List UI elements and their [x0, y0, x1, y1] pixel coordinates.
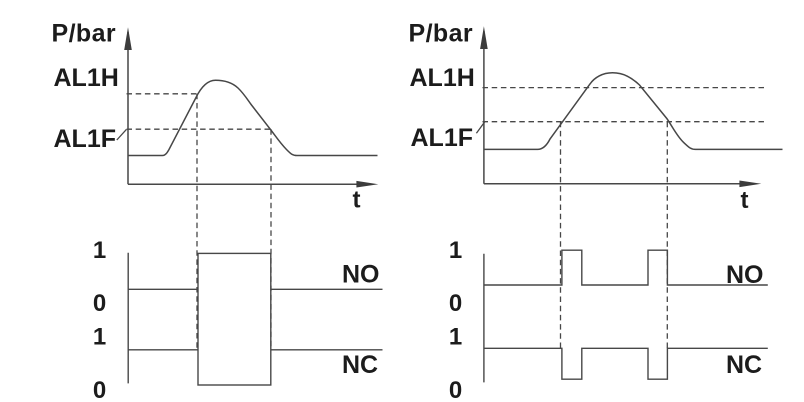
svg-text:NO: NO: [342, 261, 380, 289]
svg-text:P/bar: P/bar: [409, 20, 474, 48]
svg-text:NC: NC: [342, 351, 378, 379]
svg-text:NC: NC: [726, 351, 762, 379]
left horizontal t axis: [128, 183, 358, 185]
svg-text:1: 1: [449, 237, 462, 264]
right vertical P axis: [483, 31, 485, 184]
left pressure curve: [128, 80, 378, 155]
right horizontal t axis: [484, 183, 741, 185]
left switching pulse rectangle: [198, 253, 271, 385]
svg-text:1: 1: [449, 324, 462, 351]
right lower vertical axis: [483, 254, 485, 383]
right NC signal with two pulses: [484, 348, 768, 379]
svg-text:1: 1: [93, 237, 106, 264]
left NC signal line: [128, 349, 382, 351]
svg-text:NO: NO: [726, 261, 764, 289]
svg-text:0: 0: [93, 377, 106, 402]
left dashed marker line 2 (AL1F crossing): [270, 129, 272, 349]
svg-text:AL1H: AL1H: [54, 64, 119, 92]
left AL1H dashed level line: [127, 93, 199, 95]
right P axis arrowhead: [480, 26, 488, 49]
right t axis arrowhead: [739, 181, 761, 188]
right AL1F dashed level line: [483, 121, 766, 123]
left P axis arrowhead: [124, 27, 132, 50]
right pressure curve: [484, 73, 783, 150]
left t axis arrowhead: [356, 181, 378, 188]
svg-text:t: t: [741, 187, 749, 214]
left vertical P axis: [127, 32, 129, 184]
svg-text:t: t: [353, 187, 361, 214]
right dashed marker line 1 (AL1F up-crossing): [560, 122, 562, 349]
right dashed marker line 2 (AL1F down-crossing): [666, 122, 668, 349]
svg-text:AL1F: AL1F: [54, 125, 117, 153]
svg-text:0: 0: [449, 290, 462, 317]
svg-text:0: 0: [93, 290, 106, 317]
left dashed marker line 1 (AL1H crossing): [196, 94, 198, 349]
right NO signal with two pulses: [484, 250, 768, 285]
svg-text:AL1H: AL1H: [410, 64, 475, 92]
right AL1F pointer slash: [476, 122, 484, 133]
svg-text:AL1F: AL1F: [411, 124, 474, 152]
svg-text:1: 1: [93, 324, 106, 351]
svg-text:0: 0: [449, 377, 462, 402]
left AL1F pointer slash: [117, 129, 127, 140]
right AL1H dashed level line: [483, 87, 766, 89]
left NO signal line: [128, 288, 382, 290]
svg-text:P/bar: P/bar: [52, 20, 117, 48]
left lower vertical axis: [127, 253, 129, 384]
left AL1F dashed level line: [127, 128, 271, 130]
